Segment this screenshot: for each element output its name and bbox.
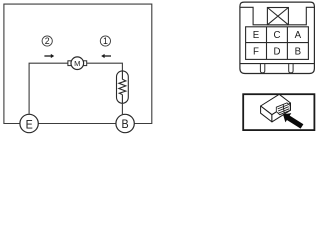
flow arrow 2 (rightward) xyxy=(44,54,54,58)
pin grid xyxy=(246,27,309,60)
mounting leg left xyxy=(260,64,264,73)
wire: motor right terminal to resistor top xyxy=(87,63,123,71)
pin letter C xyxy=(274,30,281,41)
wire: E up to motor left terminal xyxy=(29,63,68,114)
svg-text:A: A xyxy=(295,30,302,41)
mounting leg right xyxy=(289,64,293,73)
terminal B xyxy=(116,114,134,132)
pin letter B xyxy=(295,47,301,58)
svg-text:E: E xyxy=(253,30,260,41)
connector icon (3D view) xyxy=(261,94,291,122)
lock tab box with X xyxy=(267,8,288,25)
pin letter F xyxy=(253,47,259,58)
housing recess step xyxy=(240,7,315,25)
wire: resistor bottom to B xyxy=(121,103,123,115)
wire: outer loop from terminal E up left side, across top, down right side to terminal B xyxy=(4,4,152,123)
pin letter E xyxy=(253,30,260,41)
label: circled 2 xyxy=(42,36,52,46)
connector icon socket with terminal slots xyxy=(276,103,290,115)
terminal E xyxy=(20,114,38,132)
housing skirt line xyxy=(240,63,315,65)
label: circled 1 xyxy=(100,36,110,46)
svg-text:1: 1 xyxy=(103,36,108,46)
pin letter D xyxy=(274,47,281,58)
flow arrow 1 (leftward) xyxy=(101,54,111,58)
svg-text:C: C xyxy=(274,30,281,41)
wire: bottom bus between E and B xyxy=(38,123,116,125)
svg-text:D: D xyxy=(274,47,281,58)
resistor R (PTC in capsule) xyxy=(117,71,129,103)
svg-text:F: F xyxy=(253,47,259,58)
svg-text:2: 2 xyxy=(45,36,50,46)
part location box xyxy=(243,94,314,130)
pin letter A xyxy=(295,30,302,41)
svg-text:B: B xyxy=(295,47,301,58)
svg-text:E: E xyxy=(26,119,33,132)
pointer arrow to connector xyxy=(283,113,303,129)
svg-text:M: M xyxy=(74,59,80,68)
motor M (mirror motor) xyxy=(68,57,87,70)
connector housing outline xyxy=(240,2,315,73)
svg-text:B: B xyxy=(122,119,129,132)
